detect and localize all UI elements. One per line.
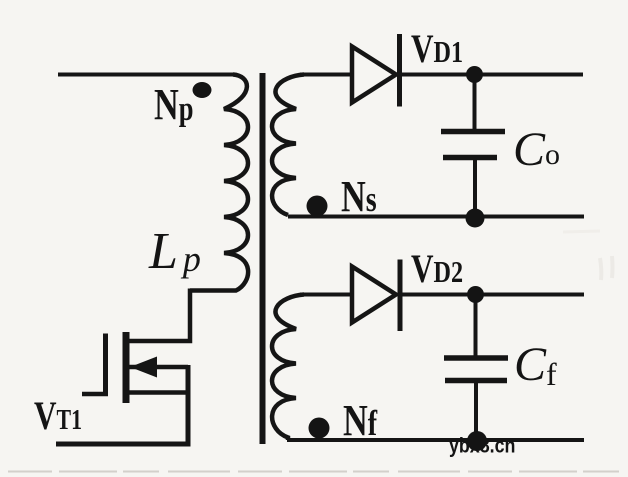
diode VD1 cathode bar: [397, 34, 402, 107]
wire Ns top to diode VD1: [300, 73, 352, 77]
wire drain riser: [126, 289, 190, 342]
wire VD2 to right output: [401, 293, 584, 297]
transistor VT1 gate lead: [82, 392, 108, 397]
junction Cf bottom dot: [467, 431, 487, 451]
junction Co bottom dot: [466, 209, 485, 228]
junction VD2 node dot: [467, 286, 484, 303]
primary winding Lp: [190, 75, 248, 291]
wire Ns return rail: [288, 215, 584, 219]
faint scan smudge top edge: [563, 231, 600, 232]
transistor VT1 arrowhead: [130, 357, 157, 378]
wire top-left input: [58, 73, 235, 77]
svg-text:Co: Co: [513, 123, 560, 176]
diode VD2 cathode bar: [398, 260, 403, 332]
diode VD1 triangle: [352, 47, 396, 103]
wire Nf return rail: [287, 438, 584, 442]
transistor VT1 channel bar: [123, 332, 130, 403]
diode VD2 triangle: [352, 267, 396, 323]
svg-text:Ns: Ns: [341, 172, 377, 221]
node Np polarity dot: [193, 82, 212, 98]
transistor VT1 body arrow lead: [129, 365, 188, 370]
capacitor Co top plate: [441, 129, 505, 135]
wire junction down to Co: [473, 75, 477, 131]
secondary winding Nf: [272, 295, 304, 441]
node Ns polarity dot: [307, 196, 328, 217]
svg-text:Nf: Nf: [343, 396, 378, 445]
svg-text:VD2: VD2: [411, 246, 463, 291]
wire Nf top to diode VD2: [300, 293, 352, 297]
transistor VT1 gate bar: [103, 334, 108, 397]
capacitor Co bottom plate: [443, 155, 497, 161]
wire source down to bottom rail: [56, 365, 188, 444]
svg-text:Cf: Cf: [514, 338, 557, 392]
wire VD1 to right output: [401, 73, 583, 77]
transistor VT1 source lead: [126, 390, 188, 395]
wire Co to bottom return: [473, 159, 477, 218]
capacitor Cf top plate: [444, 355, 508, 361]
faint scan smudge right edge: [600, 256, 613, 280]
svg-text:VD1: VD1: [411, 26, 463, 71]
svg-text:Lp: Lp: [148, 223, 201, 280]
secondary winding Ns: [272, 75, 304, 216]
scan artifact bottom edge: [8, 471, 624, 473]
svg-text:Np: Np: [154, 80, 194, 129]
capacitor Cf bottom plate: [445, 378, 507, 384]
node Nf polarity dot: [309, 418, 330, 439]
transformer core: [260, 73, 266, 444]
wire junction down to Cf: [474, 295, 478, 357]
junction VD1 node dot: [466, 66, 483, 83]
wire Cf to bottom return: [474, 382, 478, 440]
svg-text:VT1: VT1: [34, 393, 82, 438]
